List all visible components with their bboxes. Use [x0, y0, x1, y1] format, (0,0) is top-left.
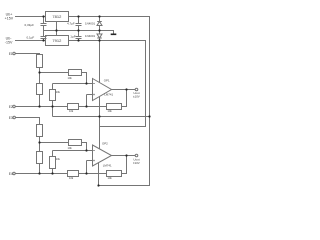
svg-text:E2: E2	[9, 105, 13, 109]
svg-text:E3: E3	[9, 116, 13, 120]
svg-text:E1: E1	[9, 52, 13, 56]
svg-text:LM741: LM741	[103, 164, 112, 168]
svg-text:OP2: OP2	[102, 142, 108, 146]
svg-text:10k: 10k	[108, 109, 113, 113]
svg-text:10k: 10k	[68, 76, 73, 80]
svg-text:LM741: LM741	[104, 93, 113, 97]
svg-text:7812: 7812	[52, 14, 62, 19]
svg-text:+15V: +15V	[5, 17, 14, 21]
svg-text:±10V: ±10V	[133, 94, 140, 98]
svg-text:0,33µF: 0,33µF	[25, 23, 35, 27]
svg-text:10k: 10k	[56, 157, 61, 161]
svg-text:10k: 10k	[56, 90, 61, 94]
svg-text:E4: E4	[9, 172, 13, 176]
svg-text:1N4001: 1N4001	[85, 21, 96, 25]
svg-text:7912: 7912	[52, 38, 62, 43]
svg-text:OP1: OP1	[104, 78, 110, 82]
svg-text:4,7µF: 4,7µF	[67, 22, 75, 26]
svg-text:1N4001: 1N4001	[85, 34, 96, 38]
svg-text:±10V: ±10V	[133, 161, 140, 165]
svg-text:-15V: -15V	[5, 41, 13, 45]
svg-text:10k: 10k	[68, 146, 73, 150]
svg-text:1µF: 1µF	[70, 35, 75, 39]
svg-text:10k: 10k	[69, 109, 74, 113]
svg-text:10k: 10k	[69, 176, 74, 180]
svg-text:0,1µF: 0,1µF	[27, 35, 35, 39]
svg-text:10k: 10k	[108, 176, 113, 180]
